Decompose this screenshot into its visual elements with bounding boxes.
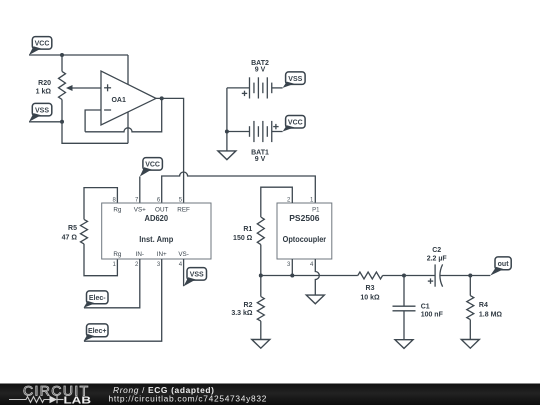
svg-text:LAB: LAB [64, 394, 92, 405]
wire bus to out flag [470, 275, 490, 277]
wire op-amp inverting input stub [85, 110, 101, 132]
svg-text:R5: R5 [68, 225, 77, 232]
battery BAT1 [250, 121, 279, 163]
svg-text:Optocoupler: Optocoupler [283, 234, 327, 244]
svg-text:out: out [498, 261, 510, 268]
wire R2 bottom lead [260, 321, 262, 339]
op-amp OA1 [101, 71, 156, 125]
wire op-amp V+ supply stub [127, 55, 129, 85]
resistor R3 [358, 272, 383, 302]
resistor R4 [467, 296, 503, 320]
wire BAT1 left lead [227, 131, 250, 133]
wire bus R1 to R3 [261, 275, 358, 277]
svg-text:150 Ω: 150 Ω [233, 235, 253, 242]
svg-text:R3: R3 [366, 285, 375, 292]
resistor R1 [233, 217, 264, 245]
svg-text:REF: REF [177, 206, 190, 213]
wire R1 bottom lead [260, 245, 262, 276]
power flag VSS (AD620 pin 4) [184, 268, 207, 287]
wire op-amp V- supply stub [127, 112, 129, 144]
input flag Elec- [84, 291, 109, 308]
svg-text:Elec-: Elec- [89, 295, 106, 302]
footer bar [0, 384, 540, 405]
svg-text:Rg: Rg [113, 251, 122, 258]
ground (R4) [461, 340, 479, 349]
power flag VSS (left) [29, 103, 52, 121]
wire AD620 pin3 to Elec+ [84, 259, 162, 341]
svg-text:VSS: VSS [190, 272, 204, 279]
wire R4 bottom lead [469, 320, 471, 340]
wire op-amp output to REF [156, 98, 184, 203]
wire R20 bottom lead [61, 100, 63, 122]
node VSS/R20 junction [60, 120, 64, 124]
svg-text:10 kΩ: 10 kΩ [360, 295, 380, 302]
wire AD620 pin7 stub [139, 177, 141, 204]
wire bus to C2 [404, 275, 435, 277]
svg-text:VCC: VCC [35, 41, 50, 48]
wire PS2506 pin2 to R1 top [261, 187, 293, 217]
svg-text:9 V: 9 V [255, 67, 266, 74]
node pin3/bus junction [290, 274, 294, 278]
capacitor C1 [393, 276, 444, 340]
wire C2 to R4 node [441, 275, 471, 277]
logo diode [50, 396, 58, 404]
battery BAT2 [242, 60, 272, 99]
svg-text:http://circuitlab.com/c7425473: http://circuitlab.com/c74254734y832 [109, 394, 268, 404]
wire BAT1 right lead [272, 131, 283, 133]
svg-text:VSS: VSS [288, 76, 302, 83]
resistor R2 [231, 297, 264, 322]
svg-text:R2: R2 [244, 302, 253, 309]
ground (C1) [395, 340, 413, 349]
logo resistor zigzag [9, 397, 50, 403]
svg-text:VSS: VSS [35, 107, 49, 114]
ground (battery) [218, 151, 236, 160]
wire PS2506 pin4 to ground with hop [315, 259, 319, 295]
node R1/R2/bus junction [259, 274, 263, 278]
wire BAT2 left lead [227, 87, 250, 89]
node VCC/R20 junction [60, 53, 64, 57]
power flag VCC (battery) [283, 116, 306, 132]
svg-text:Rg: Rg [113, 206, 122, 213]
wire BAT2 right lead [272, 87, 283, 89]
node C1/bus junction [402, 274, 406, 278]
svg-text:PS2506: PS2506 [289, 213, 320, 223]
wire feedback bottom with hop [85, 98, 162, 131]
wire AD620 pin4 stub [183, 259, 185, 286]
svg-text:VCC: VCC [288, 120, 303, 127]
wire R3 to C1 node [383, 275, 404, 277]
svg-text:R4: R4 [479, 302, 488, 309]
svg-text:IN-: IN- [136, 251, 144, 258]
svg-text:R20: R20 [38, 80, 51, 87]
IC U2 PS2506 [277, 198, 332, 269]
svg-text:Elec+: Elec+ [88, 328, 107, 335]
capacitor C2 [427, 247, 448, 287]
svg-text:1 kΩ: 1 kΩ [36, 88, 52, 95]
svg-text:Inst. Amp: Inst. Amp [139, 234, 173, 244]
input flag Elec+ [84, 324, 109, 341]
power flag VCC (top left) [29, 37, 52, 55]
svg-text:R1: R1 [243, 226, 252, 233]
wire AD620 pin8 to R5 top [84, 188, 117, 220]
svg-text:AD620: AD620 [145, 213, 169, 223]
output flag out [490, 257, 511, 276]
wire VCC rail top [29, 54, 128, 56]
svg-text:OA1: OA1 [111, 97, 126, 104]
svg-text:IN+: IN+ [157, 251, 167, 258]
svg-text:100 nF: 100 nF [421, 312, 444, 319]
wire R20 top lead [61, 55, 63, 71]
power flag VCC (AD620 pin 7) [140, 158, 163, 177]
svg-text:C2: C2 [432, 247, 441, 254]
IC U1 AD620 [102, 198, 211, 269]
wire VSS rail to op-amp V- [29, 121, 62, 123]
wire R2 top lead [260, 276, 262, 297]
svg-text:2.2 µF: 2.2 µF [427, 256, 448, 263]
wire AD620 pin2 to Elec- [84, 259, 140, 308]
wire R4 top lead [469, 276, 471, 296]
wire AD620 pin6 OUT rail with hop [162, 172, 316, 203]
node R4/bus junction [468, 274, 472, 278]
ground (PS2506 pin 4) [306, 295, 324, 304]
ground (R2) [252, 340, 270, 349]
svg-text:47 Ω: 47 Ω [62, 235, 78, 242]
wire battery left rail [226, 88, 228, 151]
svg-text:3.3 kΩ: 3.3 kΩ [231, 310, 253, 317]
power flag VSS (battery) [283, 72, 306, 88]
svg-text:9 V: 9 V [255, 156, 266, 163]
svg-text:VCC: VCC [145, 162, 160, 169]
potentiometer R20 [36, 71, 101, 99]
resistor R5 [62, 219, 88, 244]
node op-amp output junction [160, 96, 164, 100]
svg-text:C1: C1 [421, 303, 430, 310]
wire R5 bottom to AD620 pin1 [84, 244, 117, 276]
svg-text:VS-: VS- [178, 251, 189, 258]
wire PS2506 pin3 stub [291, 259, 293, 276]
node battery rail junction [225, 130, 229, 134]
svg-text:1.8 MΩ: 1.8 MΩ [479, 312, 503, 319]
